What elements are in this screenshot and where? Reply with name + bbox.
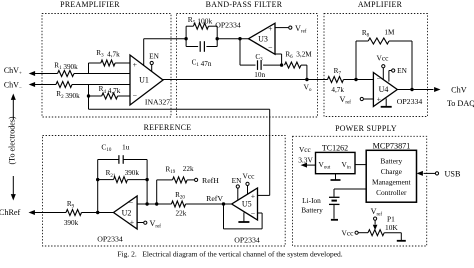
wire R4 to U1 pin4: [118, 95, 130, 97]
U5 - marker: [251, 209, 256, 218]
wire U1 output main line: [163, 79, 328, 81]
svg-text:PREAMPLIFIER: PREAMPLIFIER: [60, 0, 120, 9]
svg-text:−: −: [268, 44, 273, 53]
svg-text:22k: 22k: [176, 209, 187, 217]
U3 + marker: [268, 24, 273, 33]
Vcc 3.3V output arrow: [298, 145, 315, 168]
capacitor C3 10n: [240, 53, 282, 79]
op-amp U1 INA327 triangle: [130, 55, 163, 105]
svg-text:Vcc: Vcc: [342, 228, 355, 237]
svg-text:U5: U5: [242, 200, 252, 209]
section title PREAMPLIFIER: [60, 0, 120, 9]
section title BAND-PASS FILTER: [206, 0, 283, 9]
node ChV+ arrow and wire: [29, 71, 58, 76]
wire feedback right riser: [146, 160, 148, 205]
MCP73871 inner text: [372, 157, 412, 198]
dashed box power supply: [293, 136, 427, 246]
wire R1 to U1 pin2: [74, 73, 130, 75]
svg-text:EN: EN: [149, 51, 159, 60]
U3 + input to Vref terminal: [275, 24, 307, 35]
svg-text:TC1262: TC1262: [322, 144, 348, 153]
U1 EN pin: [149, 51, 159, 71]
op-amp U5 triangle: [232, 188, 258, 220]
U4 - marker: [377, 74, 382, 83]
svg-text:RefV: RefV: [206, 194, 223, 203]
wire branch down to R4: [89, 85, 102, 97]
svg-text:REFERENCE: REFERENCE: [144, 123, 192, 132]
resistor R4 4.7k: [99, 85, 121, 99]
U4 ground: [381, 98, 392, 106]
resistor R5 100k: [188, 15, 213, 29]
potentiometer P1 resistor: [368, 230, 384, 236]
electrode arrow up: [11, 94, 16, 120]
wire R9 to U2 output: [82, 212, 114, 214]
U3 designator: [258, 35, 268, 44]
svg-text:22k: 22k: [183, 165, 194, 173]
U2 part number OP2334: [97, 234, 123, 243]
potentiometer P1 Vref tap: [371, 207, 383, 230]
svg-text:To DAQ: To DAQ: [447, 99, 474, 108]
U2 designator: [122, 208, 132, 217]
op-amp U3 triangle: [249, 23, 276, 54]
svg-text:OP2334: OP2334: [97, 234, 123, 243]
U5 EN pin: [232, 176, 242, 200]
svg-text:BAND-PASS FILTER: BAND-PASS FILTER: [206, 0, 283, 9]
resistor R20 22k: [171, 191, 186, 217]
junction node Vo: [304, 78, 312, 93]
resistor R7 4.7k: [328, 67, 345, 94]
svg-text:Battery: Battery: [301, 205, 323, 214]
U4 part number OP2334: [397, 97, 423, 106]
resistor R19 22k: [166, 165, 194, 183]
wire parallel network frame: [186, 26, 217, 46]
svg-text:Controller: Controller: [376, 188, 407, 197]
svg-text:+: +: [377, 95, 382, 104]
wire riser to C3: [239, 39, 241, 65]
dashed box amplifier: [324, 14, 428, 117]
dashed box reference: [43, 136, 286, 247]
resistor R6 3.2M: [285, 51, 313, 69]
svg-text:EN: EN: [397, 66, 407, 75]
svg-text:ChV: ChV: [451, 86, 467, 95]
wire U4 output: [397, 87, 440, 92]
junction dot R2/R4 node: [87, 94, 90, 97]
U5 ground: [238, 213, 249, 223]
U2 + marker: [130, 218, 135, 227]
svg-text:3,2M: 3,2M: [296, 51, 312, 59]
U4 designator: [379, 85, 389, 94]
junction dot RefV feedback: [222, 202, 225, 205]
node RefH terminal: [187, 176, 219, 185]
junction dot feedback left: [96, 178, 99, 181]
TC1262 Vin label: [342, 160, 352, 171]
U4 Vref input terminal: [340, 95, 374, 106]
U4 EN pin: [389, 66, 408, 81]
wire R2 to U1 pin3: [72, 84, 130, 86]
junction dot R19/R20 split: [155, 202, 158, 205]
svg-text:Vcc: Vcc: [377, 53, 390, 62]
svg-text:−: −: [129, 199, 134, 208]
op-amp U2 triangle: [114, 196, 138, 229]
svg-text:Li-Ion: Li-Ion: [302, 196, 321, 205]
svg-text:Fig. 2. Electrical diagram o: Fig. 2. Electrical diagram of the vertic…: [117, 250, 342, 259]
U3 - marker: [268, 44, 273, 53]
svg-text:ChRef: ChRef: [0, 208, 21, 217]
regulator TC1262 box: [316, 144, 356, 174]
wire feedback riser to R8: [356, 41, 368, 80]
svg-text:−: −: [251, 209, 256, 218]
U3 - input wire: [275, 54, 282, 65]
U1 + marker: [133, 60, 138, 69]
op-amp U4 triangle: [373, 73, 397, 107]
svg-text:−: −: [377, 74, 382, 83]
capacitor C1 47n: [192, 41, 212, 68]
battery Li-Ion symbol: [329, 197, 340, 219]
wire R8 to output node: [389, 41, 412, 90]
svg-text:+: +: [133, 60, 138, 69]
potentiometer P1 Vcc terminal: [342, 228, 368, 237]
svg-text:AMPLIFIER: AMPLIFIER: [358, 0, 403, 9]
svg-text:Battery: Battery: [380, 157, 402, 166]
svg-text:OP2334: OP2334: [397, 97, 423, 106]
svg-text:Vcc: Vcc: [243, 172, 256, 181]
svg-text:INA327: INA327: [145, 98, 170, 107]
section title AMPLIFIER: [358, 0, 403, 9]
junction dot feedback node: [354, 78, 357, 81]
wire battery to MCP: [334, 189, 366, 197]
resistor R9 390k: [64, 200, 82, 227]
junction dot U2 output node: [96, 211, 99, 214]
label (To electrodes): [8, 116, 17, 164]
section title REFERENCE: [144, 123, 192, 132]
wire TC1262 to MCP: [355, 164, 366, 166]
svg-text:Charge: Charge: [381, 167, 403, 176]
junction dot C3/R6 node: [280, 63, 283, 66]
junction dot U3 input node: [238, 37, 241, 40]
svg-text:Management: Management: [372, 178, 412, 187]
svg-text:1M: 1M: [384, 29, 395, 37]
svg-text:+: +: [130, 218, 135, 227]
svg-text:U1: U1: [139, 75, 149, 84]
svg-text:RefH: RefH: [202, 176, 219, 185]
U1 - marker: [133, 91, 138, 100]
wire R7 to U4 - input: [344, 79, 374, 81]
TC1262 Vout label: [319, 160, 331, 171]
U4 + marker: [377, 95, 382, 104]
U1 part number INA327: [145, 98, 170, 107]
svg-text:−: −: [133, 91, 138, 100]
TC1262 ground: [331, 174, 341, 180]
svg-text:USB: USB: [445, 170, 461, 179]
USB connector: [417, 170, 461, 179]
wire R6 to Vo node: [301, 65, 307, 79]
junction dot U2 - node: [145, 202, 148, 205]
node ChRef arrow and wire: [29, 210, 67, 215]
resistor R21 390k: [98, 169, 147, 182]
svg-text:10n: 10n: [254, 71, 265, 79]
svg-text:OP2334: OP2334: [215, 21, 241, 30]
node ChV+ label: [4, 66, 22, 77]
wire - node to R20: [147, 203, 171, 205]
resistor R3 4.7k: [96, 49, 120, 66]
controller MCP73871 box: [366, 141, 416, 202]
svg-text:(To electrodes): (To electrodes): [8, 116, 17, 164]
potentiometer P1 ground: [384, 233, 406, 241]
section title POWER SUPPLY: [335, 124, 397, 133]
node ChRef label: [0, 208, 21, 217]
svg-text:Vcc: Vcc: [299, 145, 312, 154]
U1 designator: [139, 75, 149, 84]
label Li-Ion Battery: [301, 196, 323, 214]
svg-text:POWER SUPPLY: POWER SUPPLY: [335, 124, 397, 133]
wire R3 to U1 pin1: [115, 62, 130, 64]
junction node BPF input: [184, 37, 187, 40]
figure caption: [117, 250, 342, 259]
svg-text:4,7k: 4,7k: [331, 86, 344, 94]
U5 + marker: [251, 192, 256, 201]
U5 designator: [242, 200, 252, 209]
U5 feedback wire: [224, 204, 263, 229]
wire branch up to R3: [89, 63, 101, 74]
svg-text:10K: 10K: [385, 223, 398, 232]
svg-text:1u: 1u: [122, 143, 130, 152]
svg-text:U2: U2: [122, 208, 132, 217]
wire U1 to band-pass filter input: [144, 39, 186, 66]
svg-text:390k: 390k: [64, 219, 79, 227]
label P1 10K: [385, 215, 398, 232]
U2 - input wire: [137, 203, 147, 205]
svg-text:3.3V: 3.3V: [298, 155, 313, 164]
node ChV output label: [451, 86, 467, 95]
wire reference sense line: [89, 96, 270, 195]
resistor R1 390k: [54, 61, 78, 76]
svg-text:U4: U4: [379, 85, 389, 94]
svg-text:390k: 390k: [125, 169, 140, 177]
label To DAQ: [447, 99, 474, 108]
node RefV wire: [186, 194, 232, 204]
svg-text:OP2334: OP2334: [234, 235, 260, 244]
resistor R8 1M: [362, 29, 395, 44]
svg-text:EN: EN: [232, 176, 242, 185]
node ChV- arrow and wire: [29, 82, 56, 87]
junction dot feedback right: [145, 178, 148, 181]
junction dot network right: [216, 37, 249, 40]
U5 part number OP2334: [234, 235, 260, 244]
U4 Vcc pin: [377, 53, 390, 79]
dashed box preamplifier: [42, 14, 171, 118]
battery ground: [331, 219, 338, 221]
op-amp U3 OP2334 label: [215, 21, 241, 30]
U5 Vcc pin: [243, 172, 256, 195]
wire riser to R19: [157, 180, 173, 204]
capacitor C10 1u: [98, 143, 147, 164]
U2 - marker: [129, 199, 134, 208]
dashed box band-pass filter: [177, 14, 318, 118]
wire feedback left riser: [97, 160, 99, 213]
electrode arrow down: [11, 176, 16, 201]
U2 + input to Vref terminal: [137, 219, 161, 230]
svg-text:+: +: [268, 24, 273, 33]
svg-text:MCP73871: MCP73871: [373, 141, 411, 150]
resistor R2 390k: [56, 82, 80, 100]
node ChV- label: [4, 80, 22, 91]
svg-text:U3: U3: [258, 35, 268, 44]
